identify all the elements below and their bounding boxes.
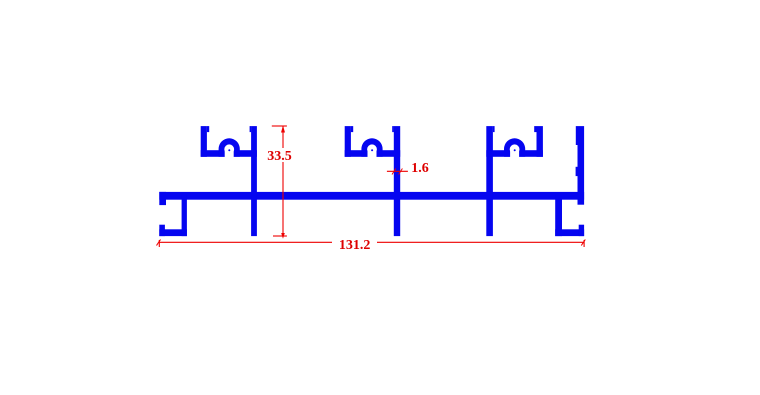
right end pocket lower lip [579, 225, 584, 236]
dimension 33.5 bottom tick [273, 235, 287, 237]
screw boss 1 arch [219, 138, 240, 157]
boss channel 3 right wall lip [534, 126, 536, 132]
dimension 1.6 leader line [387, 170, 408, 172]
screw boss 2 arch [361, 138, 382, 157]
post 1 (tall rib through web) [251, 126, 257, 236]
right end wall body [578, 145, 585, 205]
boss channel 2 left wall [345, 126, 351, 157]
boss channel 2 bottom wall [345, 150, 401, 157]
left end pocket bottom wall [159, 229, 187, 236]
dimension 1.6 right slash [398, 168, 403, 175]
dimension 131.2 line left segment [159, 241, 332, 243]
post 2 top lip [392, 126, 394, 132]
main web (horizontal bar) [159, 192, 584, 200]
screw hole 2 [367, 144, 377, 154]
post 3 (tall rib through web, mirrored channel) [486, 126, 493, 236]
screw hole 1 center mark [228, 149, 230, 151]
post 2 (tall rib through web) [394, 126, 400, 236]
post 3 top lip [493, 126, 495, 132]
svg-text:1.6: 1.6 [411, 161, 429, 176]
screw hole 2 center mark [371, 149, 373, 151]
dimension 33.5 bottom arrow [281, 233, 285, 239]
screw hole 3 slot [510, 149, 519, 157]
boss channel 1 bottom wall [201, 150, 257, 157]
left end pocket lower lip [159, 225, 165, 236]
right end pocket inner wall [555, 195, 562, 236]
dimension 33.5 vertical line [282, 126, 284, 236]
left end pocket upper lip [159, 192, 166, 205]
boss channel 1 left wall [201, 126, 207, 157]
dimension text 33.5 background [266, 148, 293, 162]
right end wall hook bump [576, 167, 578, 176]
dimension 33.5 top tick [272, 125, 287, 127]
svg-text:33.5: 33.5 [267, 149, 292, 164]
screw hole 2 slot [368, 149, 377, 157]
svg-text:131.2: 131.2 [339, 238, 371, 253]
screw hole 3 center mark [514, 149, 516, 151]
dimension 131.2 left end tick [158, 240, 160, 247]
boss channel 2 left wall lip [351, 126, 353, 132]
post 1 top lip [250, 126, 252, 132]
right end pocket bottom wall [555, 229, 584, 236]
screw hole 1 [224, 144, 234, 154]
screw boss 3 arch [504, 138, 525, 157]
dimension 1.6 left slash [392, 168, 397, 175]
boss channel 3 right wall [537, 126, 543, 157]
dimension 131.2 right end tick [583, 240, 585, 247]
boss channel 3 bottom wall [486, 150, 543, 157]
left end pocket inner wall [182, 195, 187, 236]
boss channel 1 left wall lip [207, 126, 209, 132]
screw hole 3 [510, 144, 520, 154]
right end wall top section [576, 126, 584, 145]
dimension 131.2 left end slash [157, 240, 161, 246]
screw hole 1 slot [225, 149, 234, 157]
dimension 33.5 top arrow [281, 126, 285, 133]
dimension 131.2 right end slash [581, 240, 585, 246]
dimension 131.2 line right segment [377, 241, 584, 243]
